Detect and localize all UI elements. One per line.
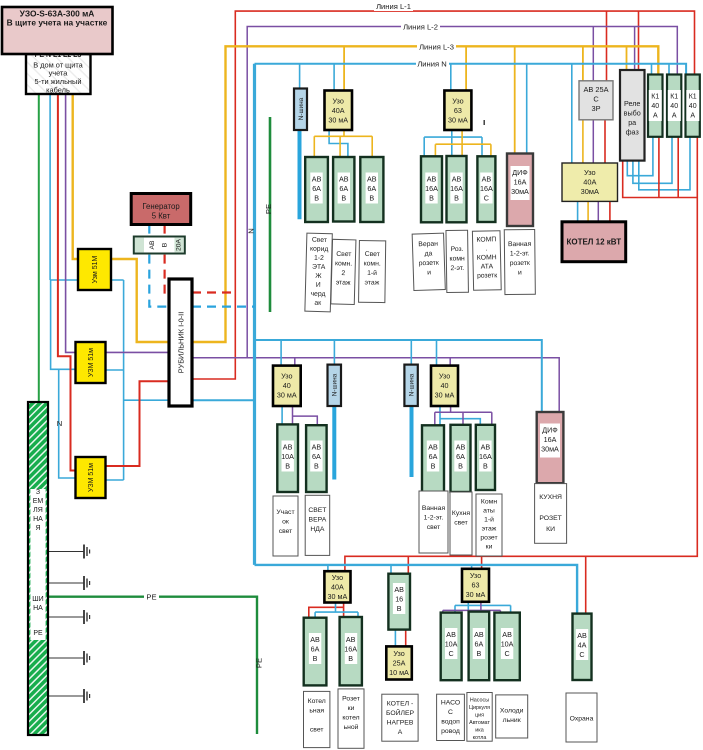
wire N link rubilnik	[192, 399, 255, 401]
svg-text:С: С	[484, 194, 489, 203]
wire N mid drop to N-bus mid-1	[333, 340, 335, 365]
svg-text:Линия L-2: Линия L-2	[403, 23, 438, 32]
svg-text:розетк: розетк	[510, 260, 530, 267]
svg-text:16: 16	[395, 595, 403, 604]
wire N drop to RCD 63 group2	[450, 64, 452, 91]
phase selection relay	[620, 70, 645, 161]
svg-text:Ванная: Ванная	[508, 241, 532, 248]
svg-text:Охрана: Охрана	[570, 716, 594, 723]
load label pump water supply	[437, 694, 465, 740]
svg-text:N-шина: N-шина	[298, 97, 305, 120]
svg-text:63: 63	[472, 581, 480, 590]
load label bathroom sockets	[504, 229, 535, 294]
svg-text:ика: ика	[475, 728, 484, 734]
breaker AB 6A B g1-2	[333, 157, 354, 222]
svg-text:6А: 6А	[312, 184, 321, 193]
wire N drop to DIF bathroom	[526, 64, 528, 154]
surge protector UZM 51m no3	[76, 457, 106, 498]
svg-text:да: да	[424, 250, 432, 257]
svg-text:А: А	[398, 729, 403, 736]
svg-text:ровод: ровод	[441, 728, 460, 735]
N bus bar mid-1	[328, 365, 342, 406]
svg-text:30 мА: 30 мА	[277, 391, 297, 400]
wire AB16V to RCD25	[395, 630, 405, 647]
svg-text:30мА: 30мА	[511, 187, 529, 196]
svg-text:РУБИЛЬНИК I-0-II: РУБИЛЬНИК I-0-II	[177, 312, 186, 374]
breaker AB 16 B waterheater	[388, 574, 410, 630]
svg-text:40: 40	[441, 381, 449, 390]
node label PE upper segment	[264, 204, 273, 214]
svg-text:Узо: Узо	[333, 97, 344, 106]
svg-text:свет: свет	[454, 520, 468, 527]
wire N riser left x124	[123, 280, 125, 480]
svg-text:ЭТА: ЭТА	[312, 264, 326, 271]
RCBO DIF 16A 30mA bathroom	[507, 154, 533, 227]
svg-text:АВ: АВ	[502, 630, 512, 639]
svg-text:В: В	[397, 604, 402, 613]
wire relay coil N loop 3	[639, 137, 690, 190]
svg-text:30 мА: 30 мА	[466, 590, 486, 599]
svg-text:БОЙЛЕР: БОЙЛЕР	[386, 708, 415, 717]
svg-text:АВ 25А: АВ 25А	[583, 85, 608, 94]
svg-text:10 мА: 10 мА	[389, 668, 409, 677]
svg-text:АВ: АВ	[482, 175, 492, 184]
N bus bar top group1	[294, 89, 307, 131]
wire cable N through UZM1	[50, 279, 124, 281]
svg-text:АВ: АВ	[149, 240, 156, 250]
svg-text:Реле: Реле	[624, 99, 640, 108]
node label N left	[57, 419, 62, 428]
wire RCD mid-left N out	[281, 406, 283, 424]
svg-text:В: В	[477, 649, 482, 658]
svg-text:К1: К1	[689, 94, 697, 101]
svg-text:N: N	[57, 419, 62, 428]
wire line L1 bus red	[192, 11, 695, 379]
wire RCD40R to boiler	[578, 201, 610, 221]
svg-text:АВ: АВ	[367, 175, 377, 184]
svg-text:Розет: Розет	[342, 696, 360, 703]
svg-text:40А: 40А	[332, 106, 345, 115]
surge protector UZM 51m no2	[76, 342, 106, 383]
load label security	[566, 693, 597, 742]
svg-text:ШИ: ШИ	[32, 596, 43, 603]
cable box 5-wire	[26, 52, 91, 94]
svg-text:этаж: этаж	[482, 526, 497, 533]
svg-text:аты: аты	[483, 508, 495, 515]
svg-text:З: З	[36, 489, 40, 496]
svg-text:В щите учета на участке: В щите учета на участке	[7, 17, 108, 27]
breaker AB 4A C security	[573, 614, 592, 680]
svg-text:АВ: АВ	[427, 175, 437, 184]
svg-text:ок: ок	[282, 519, 289, 526]
svg-text:Участ: Участ	[276, 509, 294, 516]
tick mark near RCD63	[484, 120, 485, 125]
load label boiler waterheater	[382, 694, 418, 741]
wire line N bus cyan vertical	[253, 64, 256, 565]
svg-text:40: 40	[689, 103, 697, 110]
svg-text:Ванная: Ванная	[422, 505, 446, 512]
svg-text:ДИФ: ДИФ	[542, 426, 558, 435]
svg-text:НАСО: НАСО	[441, 700, 460, 707]
wire RCD40-1 L out fanout	[314, 130, 372, 157]
wire UZM3 N out	[105, 479, 124, 481]
breaker AB 6A B mid-left-2	[306, 425, 327, 492]
breaker AB 16A B mid-right-3	[476, 425, 495, 490]
svg-text:котел: котел	[342, 715, 359, 722]
svg-text:30мА: 30мА	[541, 445, 559, 454]
svg-text:свет: свет	[427, 524, 441, 531]
svg-text:В: В	[429, 194, 434, 203]
wire L2 drop to AB25A	[592, 27, 594, 81]
svg-text:1-2-эт.: 1-2-эт.	[510, 250, 530, 257]
svg-text:АВ: АВ	[481, 443, 491, 452]
load label boilerroom sockets	[338, 689, 364, 748]
svg-text:6А: 6А	[339, 184, 348, 193]
wire RCD mid-right L out	[435, 406, 492, 425]
svg-text:ВЕРА: ВЕРА	[309, 517, 327, 524]
svg-text:АТА: АТА	[481, 263, 494, 270]
svg-text:16А: 16А	[425, 184, 438, 193]
svg-text:выбо: выбо	[624, 109, 641, 118]
svg-text:розетк: розетк	[419, 260, 439, 268]
svg-text:16А: 16А	[480, 184, 493, 193]
wire line N bus cyan horizontal	[255, 64, 687, 75]
load label bathroom light	[419, 491, 448, 553]
wire relay coil N loop 1	[627, 137, 653, 176]
RCD UZO 63 30mA bottom	[462, 569, 489, 602]
svg-text:Узм 51М: Узм 51М	[92, 256, 99, 284]
wire line L3 bus yellow	[73, 46, 659, 342]
wire N drop to contactor K1-2	[668, 64, 670, 75]
RCD UZO 40A 30mA group1	[325, 91, 353, 131]
svg-text:АВ: АВ	[312, 443, 322, 452]
svg-text:Узо: Узо	[470, 571, 481, 580]
load label light room floor1	[359, 241, 386, 303]
svg-text:К1: К1	[670, 94, 678, 101]
svg-text:PE: PE	[264, 204, 273, 214]
svg-text:ьная: ьная	[309, 708, 324, 715]
svg-text:АВ: АВ	[577, 631, 587, 640]
wire N mid drop to N-bus mid-2	[410, 340, 412, 365]
wire cable N jog down to UZM2 UZM3	[51, 280, 76, 478]
svg-text:Узо: Узо	[452, 97, 463, 106]
svg-text:ция: ция	[475, 713, 484, 719]
svg-text:ьной: ьной	[344, 723, 359, 731]
wire N bottom bus cyan	[255, 565, 578, 614]
svg-text:.: .	[486, 245, 488, 252]
svg-text:фаз: фаз	[626, 128, 640, 137]
wire AB25A to RCD40R three phases	[583, 120, 605, 163]
svg-text:РЕ: РЕ	[33, 630, 43, 637]
load label fridge	[496, 695, 528, 738]
svg-text:Линия L-1: Линия L-1	[376, 2, 411, 11]
boiler KOTEL 12kW	[562, 222, 626, 262]
svg-text:В: В	[162, 242, 169, 247]
wire generator N dashed right	[192, 306, 255, 308]
contactor K1 no1	[648, 75, 663, 137]
svg-text:УЗМ 51м: УЗМ 51м	[88, 348, 95, 377]
load label pumps circulation boiler automation	[467, 693, 492, 742]
svg-text:6А: 6А	[311, 645, 320, 654]
svg-text:40А: 40А	[331, 583, 344, 592]
svg-text:N: N	[246, 228, 255, 233]
wire N-bus mid-1 stub	[332, 406, 336, 480]
svg-text:В: В	[314, 194, 319, 203]
wire relay red output collector	[623, 161, 698, 198]
svg-text:котла: котла	[473, 735, 487, 741]
svg-text:Насосы: Насосы	[470, 698, 489, 704]
svg-text:АВ: АВ	[394, 585, 404, 594]
wire N mid drop to RCD mid-right	[436, 340, 438, 366]
wire N bottom drop to AB16V	[390, 565, 392, 574]
wire RCD mid-right N out	[440, 406, 480, 425]
svg-text:АВ: АВ	[428, 443, 438, 452]
svg-text:КОМП: КОМП	[476, 236, 496, 243]
breaker AB 16A B boilerroom sockets	[340, 617, 362, 685]
svg-text:черд: черд	[310, 291, 325, 298]
svg-text:16А: 16А	[344, 645, 357, 654]
svg-text:ки: ки	[348, 705, 355, 712]
svg-text:С: С	[448, 649, 453, 658]
ground stub 1	[48, 545, 90, 559]
wire K1-1 red down	[658, 137, 660, 198]
svg-text:6А: 6А	[475, 640, 484, 649]
svg-text:Узо: Узо	[393, 649, 404, 658]
svg-text:В: В	[369, 194, 374, 203]
svg-text:Генератор: Генератор	[142, 202, 180, 211]
wire N mid drop to RCD mid-left	[280, 340, 282, 366]
svg-text:40: 40	[651, 103, 659, 110]
svg-text:Свет: Свет	[312, 237, 327, 244]
wire RCD40 bottom N out	[315, 603, 358, 618]
svg-text:С: С	[579, 650, 584, 659]
contactor K1 no3	[686, 75, 700, 137]
svg-text:1-2: 1-2	[314, 255, 324, 262]
wire RCD63 bottom L out	[443, 602, 501, 613]
wire RCD63 bottom N out	[455, 602, 511, 613]
svg-text:АВ: АВ	[283, 443, 293, 452]
svg-text:В: В	[285, 462, 290, 471]
svg-text:В: В	[313, 654, 318, 663]
wire cable PE green	[38, 94, 40, 402]
svg-text:40А: 40А	[583, 178, 596, 187]
wire L3 drop to DIF bathroom	[514, 46, 516, 153]
wire N bottom drop to RCD40 bottom	[327, 565, 329, 571]
wire UZM3 L1 out to rubilnik	[105, 381, 170, 466]
svg-text:В: В	[431, 462, 436, 471]
wire L1 drop to AB25A	[606, 11, 608, 81]
svg-text:НА: НА	[33, 516, 43, 523]
svg-text:Кухня: Кухня	[452, 510, 471, 517]
wire UZM2 N out	[105, 369, 124, 371]
svg-text:Свет: Свет	[336, 251, 351, 258]
wire N-bus bar top stub	[298, 130, 302, 219]
RCD UZO 25A 10mA waterheater	[386, 646, 412, 679]
svg-text:НАГРЕВ: НАГРЕВ	[387, 720, 414, 727]
node label Line L-1	[374, 1, 413, 11]
wire cable L2 purple	[66, 94, 169, 352]
svg-text:Линия L-3: Линия L-3	[419, 42, 454, 51]
breaker AB 16A B g2-2	[447, 156, 467, 222]
svg-text:Веран: Веран	[418, 241, 438, 249]
breaker AB 6A B g1-1	[305, 157, 328, 222]
svg-text:кабель: кабель	[46, 86, 70, 95]
svg-text:2: 2	[341, 270, 345, 277]
svg-text:НДА: НДА	[310, 526, 325, 533]
wire L2 drop to RCD mid-left	[294, 358, 296, 366]
svg-text:40: 40	[670, 103, 678, 110]
svg-text:16А: 16А	[514, 178, 527, 187]
breaker AB 6A B mid-right-2	[451, 425, 471, 492]
svg-text:СВЕТ: СВЕТ	[308, 507, 326, 514]
node label Line L-2	[401, 22, 440, 32]
svg-text:КОТЕЛ 12 кВТ: КОТЕЛ 12 кВТ	[566, 238, 621, 247]
svg-text:этаж: этаж	[365, 279, 380, 286]
wire line L2 bus purple	[192, 27, 677, 413]
contactor K1 no2	[667, 75, 681, 137]
svg-text:Линия N: Линия N	[417, 60, 446, 69]
wire cable L1 red	[58, 94, 76, 471]
svg-text:Узо: Узо	[281, 372, 292, 381]
svg-text:В: В	[348, 654, 353, 663]
ground bus bar PE	[28, 402, 48, 735]
svg-text:свет: свет	[279, 528, 293, 535]
svg-text:АВ: АВ	[452, 175, 462, 184]
wire N-bus mid-2 stub	[410, 406, 414, 477]
RCD UZO 40 30mA mid-left	[273, 366, 301, 406]
svg-text:30 мА: 30 мА	[328, 592, 348, 601]
breaker AB 6A B mid-right-1	[422, 425, 444, 492]
wire K1-3 red down right side main	[345, 137, 697, 571]
svg-text:10А: 10А	[501, 640, 514, 649]
RCD UZO 40A 30mA bottom	[324, 571, 350, 602]
svg-text:6А: 6А	[456, 452, 465, 461]
surge protector UZM 51M no1	[78, 249, 111, 290]
svg-text:комн.: комн.	[364, 260, 381, 267]
svg-text:6А: 6А	[429, 452, 438, 461]
node label Line N	[416, 59, 449, 69]
breaker AB V 20A generator	[134, 237, 185, 254]
svg-text:В: В	[314, 462, 319, 471]
svg-text:и: и	[427, 269, 431, 276]
svg-text:водоп: водоп	[441, 719, 460, 726]
load label sockets room floor2	[446, 230, 468, 292]
ground stub 4	[48, 651, 90, 665]
wire red bus drop to AB16V	[407, 556, 409, 573]
svg-text:PE: PE	[254, 658, 263, 668]
breaker AB 10A C pumps-water	[441, 613, 462, 681]
wire generator N dashed	[149, 225, 169, 307]
svg-text:ДИФ: ДИФ	[512, 168, 528, 177]
svg-text:КУХНЯ: КУХНЯ	[539, 494, 562, 501]
svg-text:и: и	[518, 269, 522, 276]
svg-text:НА: НА	[33, 605, 43, 612]
svg-text:N-шина: N-шина	[409, 373, 416, 396]
wire RCD40-1 N out	[329, 130, 348, 157]
wire RCD40 bottom L out	[309, 603, 344, 618]
svg-text:АВ: АВ	[346, 635, 356, 644]
wire generator L dashed right	[192, 291, 235, 293]
breaker AB 6A B boilerroom	[304, 618, 327, 686]
svg-text:Котел: Котел	[308, 698, 326, 705]
wire PE upper segment	[269, 117, 272, 312]
svg-text:С: С	[448, 709, 453, 716]
svg-text:свет: свет	[310, 727, 324, 734]
load label light room floor2	[331, 239, 356, 304]
svg-text:N-шина: N-шина	[332, 373, 339, 396]
wire N drop to RCD 40A group1	[333, 64, 335, 91]
wire L1 drop to phase relay	[638, 11, 640, 70]
load label rooms floor1 sockets	[476, 494, 502, 556]
svg-text:АВ: АВ	[474, 630, 484, 639]
wire N drop to N-bus bar top	[299, 64, 301, 89]
load label kitchen light	[450, 492, 472, 555]
breaker AB 10A C fridge	[494, 613, 519, 681]
wire relay coil N loop 2	[633, 137, 672, 184]
wire L3 drop to RCD 63 group2	[465, 46, 467, 90]
svg-text:63: 63	[454, 106, 462, 115]
svg-text:АВ: АВ	[310, 635, 320, 644]
svg-text:25А: 25А	[393, 659, 406, 668]
wire L3 drop to AB25A	[582, 46, 584, 81]
load label boilerroom light	[304, 691, 330, 747]
svg-text:30 мА: 30 мА	[435, 391, 455, 400]
svg-text:30 мА: 30 мА	[448, 116, 468, 125]
svg-text:В: В	[454, 194, 459, 203]
wire cable N cyan	[49, 94, 51, 280]
UZO-S main box title	[2, 7, 113, 54]
generator G1	[131, 194, 191, 225]
svg-text:А: А	[672, 113, 677, 120]
svg-text:3Р: 3Р	[591, 104, 600, 113]
svg-text:КОТЕЛ -: КОТЕЛ -	[387, 701, 413, 708]
svg-text:Узо: Узо	[584, 168, 596, 177]
svg-text:ра: ра	[628, 118, 636, 127]
svg-text:40: 40	[283, 381, 291, 390]
wire RCD63 N out fanout	[424, 130, 482, 156]
svg-text:И: И	[316, 282, 321, 289]
wire RCD mid-left L out	[293, 406, 318, 425]
wire N mid distribution bus	[255, 340, 542, 412]
svg-text:С: С	[504, 649, 509, 658]
svg-text:АВ: АВ	[339, 175, 349, 184]
svg-text:льник: льник	[503, 717, 521, 724]
svg-text:Узо: Узо	[439, 372, 450, 381]
breaker AB 16A B g2-1	[421, 156, 442, 222]
svg-text:1-й: 1-й	[367, 269, 377, 277]
switch rubilnik I-0-II	[169, 279, 192, 406]
svg-text:Узо: Узо	[332, 573, 343, 582]
wire L2 drop to RCD mid-right	[449, 358, 451, 366]
svg-text:1-й: 1-й	[484, 516, 494, 524]
svg-text:16А: 16А	[544, 435, 557, 444]
svg-text:УЗМ 51м: УЗМ 51м	[88, 463, 95, 492]
svg-text:Комн: Комн	[481, 499, 497, 506]
wire L3 drop to RCD 40A group1	[343, 46, 345, 90]
svg-text:КИ: КИ	[546, 526, 555, 533]
svg-text:ак: ак	[314, 300, 321, 307]
svg-text:А: А	[653, 113, 658, 120]
svg-text:розетк: розетк	[477, 272, 497, 279]
svg-text:ЛЯ: ЛЯ	[33, 507, 43, 514]
load label computer room sockets	[472, 231, 501, 291]
svg-text:корид: корид	[310, 246, 329, 253]
svg-text:ЕМ: ЕМ	[33, 498, 44, 505]
node label PE horizontal	[144, 592, 159, 602]
svg-text:В: В	[458, 462, 463, 471]
svg-text:Свет: Свет	[365, 251, 380, 258]
wire L3 drop to phase relay	[626, 46, 628, 70]
